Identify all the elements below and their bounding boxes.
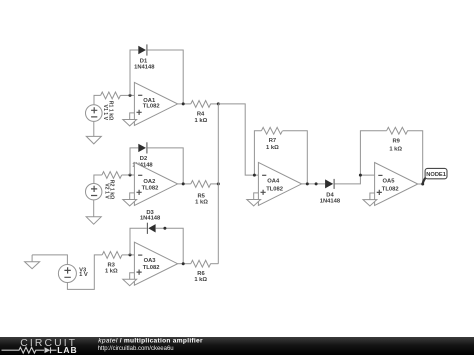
wire R2 to OA2 inverting input (122, 174, 135, 176)
wire OA5 output (418, 183, 423, 185)
resistor R4 (191, 101, 211, 108)
node R9/input junction (359, 174, 362, 177)
svg-text:1 V: 1 V (79, 272, 88, 278)
ground (OA2 + input) (123, 193, 137, 206)
wire R7 feedback loop (254, 131, 307, 184)
op-amp OA2 (134, 162, 177, 205)
svg-text:D2: D2 (140, 156, 147, 162)
svg-text:TL082: TL082 (266, 186, 283, 192)
op-amp OA4 (258, 162, 301, 205)
node OA4 output / R7 (306, 182, 309, 185)
node on D3 wire (163, 227, 166, 230)
wire V1 bottom to ground (93, 121, 95, 136)
node R5/bus junction (217, 182, 220, 185)
wire feedback top and right vertical to output (147, 148, 183, 184)
op-amp OA3 (134, 242, 177, 285)
CircuitLab logo resistor glyph (2, 347, 45, 353)
wire OA4 output to D4 (302, 183, 326, 185)
resistor R9 (387, 127, 408, 134)
wire R1 to OA1 inverting input (120, 94, 134, 96)
svg-text:1 kΩ: 1 kΩ (195, 118, 208, 124)
wire R3 to OA3 inverting input (122, 254, 134, 256)
wire V1 top to R1 (94, 95, 101, 104)
node junction at OA3 input (129, 253, 132, 256)
wire R9 feedback loop (360, 131, 422, 184)
node D4 anode (315, 182, 318, 185)
node OA2 output (182, 182, 185, 185)
resistor R5 (191, 181, 211, 188)
svg-text:LAB: LAB (57, 345, 77, 355)
wire R5 to bus (210, 183, 218, 185)
resistor R3 (102, 251, 122, 258)
wire V3 bottom loop to R3 (67, 255, 102, 290)
svg-text:kpatel / multiplication amplif: kpatel / multiplication amplifier (98, 337, 203, 344)
svg-text:R4: R4 (197, 111, 205, 117)
svg-text:1 kΩ: 1 kΩ (194, 277, 207, 283)
node R4/bus junction (217, 102, 220, 105)
wire D4 to OA5 input (335, 175, 375, 184)
ground (OA4 + input) (247, 193, 261, 206)
svg-text:http://circuitlab.com/ckeea6u: http://circuitlab.com/ckeea6u (98, 346, 174, 352)
svg-text:OA4: OA4 (267, 179, 280, 185)
svg-text:R2 1 kΩ: R2 1 kΩ (109, 180, 115, 199)
diode D3 (pointing left) (147, 223, 155, 234)
node junction at OA2 input (129, 174, 132, 177)
wire feedback left vertical (130, 50, 138, 95)
svg-text:TL082: TL082 (142, 185, 159, 191)
svg-text:TL082: TL082 (382, 187, 399, 193)
wire feedback left vertical (130, 228, 147, 255)
ground (left of V3) (25, 255, 40, 269)
svg-text:D4: D4 (326, 192, 334, 198)
diode D4 (325, 179, 334, 189)
wire V2 bottom to ground (93, 200, 95, 217)
svg-text:1N4148: 1N4148 (134, 64, 155, 70)
op-amp OA5 (375, 163, 418, 206)
svg-text:NODE1: NODE1 (426, 172, 446, 178)
voltage source V2 (86, 184, 102, 200)
svg-text:R9: R9 (392, 139, 400, 145)
svg-text:1N4148: 1N4148 (320, 199, 341, 205)
voltage source V3 (58, 265, 76, 283)
svg-text:1 kΩ: 1 kΩ (389, 146, 402, 152)
node junction at OA1 input (129, 94, 132, 97)
svg-text:R7: R7 (269, 138, 276, 144)
voltage source V1 (86, 105, 103, 122)
node flag NODE1 (425, 168, 447, 178)
resistor R2 (102, 172, 122, 179)
wire R4 to bus (210, 103, 218, 105)
wire bus to OA4 input (218, 104, 258, 175)
wire vertical bus (217, 104, 219, 264)
ground (OA1 + input) (123, 113, 137, 126)
wire ground to V3 top (32, 255, 67, 265)
node OA1 output (182, 102, 185, 105)
svg-text:R5: R5 (197, 193, 205, 199)
wire OA2 output (178, 183, 191, 185)
svg-text:TL082: TL082 (143, 265, 160, 271)
svg-text:TL082: TL082 (143, 104, 160, 110)
ground (below V2) (86, 217, 101, 224)
svg-text:OA2: OA2 (143, 179, 155, 185)
svg-text:R1 1 kΩ: R1 1 kΩ (107, 101, 113, 120)
ground (OA3 + input) (123, 273, 137, 286)
diode D1 (138, 44, 147, 55)
node flag NODE1 pointer (423, 178, 426, 185)
svg-text:1 kΩ: 1 kΩ (195, 200, 208, 206)
wire R6 to bus (210, 263, 218, 265)
node OA3 output (182, 262, 185, 265)
ground (OA5 + input) (363, 193, 377, 206)
resistor R7 (261, 127, 282, 134)
svg-text:OA5: OA5 (383, 179, 396, 185)
wire OA3 output (178, 263, 191, 265)
svg-text:OA3: OA3 (144, 258, 157, 264)
node OA5 output (421, 183, 424, 186)
svg-text:V1 1 V: V1 1 V (102, 105, 108, 121)
svg-text:1 kΩ: 1 kΩ (105, 269, 118, 275)
resistor R1 (101, 92, 121, 99)
wire feedback top and right vertical to output (147, 50, 183, 104)
op-amp OA1 (134, 82, 177, 125)
CircuitLab logo diode glyph (45, 347, 57, 353)
wire feedback top and right vertical to output (156, 228, 184, 263)
wire feedback left vertical (130, 148, 138, 175)
svg-text:1N4148: 1N4148 (140, 215, 161, 221)
wire OA1 output (178, 103, 191, 105)
node R7/input junction (253, 174, 256, 177)
svg-text:1 kΩ: 1 kΩ (266, 145, 279, 151)
diode D2 (138, 142, 147, 153)
ground (below V1) (86, 136, 101, 144)
resistor R6 (191, 260, 211, 267)
wire V2 top to R2 (94, 175, 102, 184)
